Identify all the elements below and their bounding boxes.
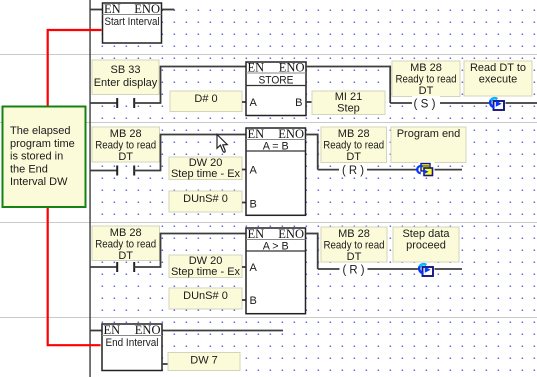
wire: riser up to EN level bbox=[160, 67, 162, 104]
coil R (rung 3) bbox=[339, 163, 367, 177]
function block FB2: STORE bbox=[246, 61, 306, 116]
svg-text:ENO: ENO bbox=[278, 127, 304, 141]
wire: B output to MI 21 bbox=[306, 101, 312, 103]
wire: contact to riser bbox=[134, 266, 161, 268]
icon: read/return arrow (rung 2) bbox=[489, 97, 506, 112]
svg-text:the End: the End bbox=[10, 163, 48, 175]
svg-text:End Interval: End Interval bbox=[106, 337, 159, 349]
svg-text:Step data: Step data bbox=[402, 228, 450, 240]
rung separator 3 bbox=[0, 222, 537, 223]
wire: contact to riser bbox=[134, 102, 161, 104]
svg-text:proceed: proceed bbox=[406, 239, 446, 251]
svg-text:( R ): ( R ) bbox=[342, 165, 364, 177]
svg-text:Ready to read: Ready to read bbox=[324, 239, 385, 251]
svg-text:Step time - Ex: Step time - Ex bbox=[171, 266, 241, 278]
svg-text:DW 7: DW 7 bbox=[190, 354, 218, 366]
svg-text:Ready to read: Ready to read bbox=[323, 139, 384, 151]
wire: DW20 to A input bbox=[242, 169, 246, 171]
rung separator 4 bbox=[0, 317, 537, 318]
svg-text:execute: execute bbox=[479, 73, 518, 85]
svg-text:MI 21: MI 21 bbox=[335, 91, 363, 103]
svg-text:D# 0: D# 0 bbox=[194, 93, 217, 105]
operand label Program end bbox=[391, 127, 466, 163]
wire: DW output to DW 7 bbox=[162, 363, 168, 365]
svg-text:EN: EN bbox=[104, 323, 121, 337]
wire: DW20 to A input bbox=[242, 266, 246, 268]
svg-text:DT: DT bbox=[118, 250, 133, 262]
wire: Start Interval ENO stub bbox=[162, 9, 175, 11]
svg-text:EN: EN bbox=[248, 61, 265, 75]
svg-text:ENO: ENO bbox=[279, 61, 305, 75]
operand DW 7 bbox=[168, 353, 240, 371]
wire: coil branch bbox=[318, 268, 462, 270]
svg-text:DT: DT bbox=[346, 151, 361, 163]
svg-text:A > B: A > B bbox=[263, 240, 289, 252]
wire: ENO to corner bbox=[306, 233, 319, 235]
wire: DUnS to B input bbox=[242, 299, 246, 301]
operand MI 21 Step bbox=[312, 91, 385, 115]
operand label MB 28 Ready to read DT (set) bbox=[392, 61, 460, 97]
svg-text:Read DT to: Read DT to bbox=[470, 62, 526, 74]
red annotation connector line bottom bbox=[48, 205, 101, 345]
svg-text:MB 28: MB 28 bbox=[338, 228, 370, 240]
operand label Step data proceed bbox=[393, 227, 459, 262]
svg-text:ENO: ENO bbox=[135, 323, 161, 337]
svg-text:A: A bbox=[250, 97, 258, 109]
contact SB33 bbox=[116, 98, 135, 108]
wire: down to coil level bbox=[317, 233, 319, 269]
operand label Read DT to execute bbox=[464, 61, 532, 96]
wire: D#0 to A input bbox=[242, 101, 246, 103]
svg-text:MB 28: MB 28 bbox=[110, 128, 142, 140]
svg-text:SB 33: SB 33 bbox=[111, 64, 141, 76]
rung separator 2 bbox=[0, 122, 537, 123]
operand DW 20 Step time - Ex (rung 4) bbox=[169, 255, 242, 278]
wire: rail to contact bbox=[90, 102, 117, 104]
svg-text:Ready to read: Ready to read bbox=[95, 139, 156, 151]
wire: rail to Start Interval EN bbox=[90, 9, 103, 11]
operand label MB 28 Ready to read DT (left) bbox=[92, 226, 160, 262]
svg-text:EN: EN bbox=[104, 2, 121, 16]
wire: riser up to EN level bbox=[160, 135, 162, 171]
rung separator 1 bbox=[0, 54, 537, 55]
coil R (rung 4) bbox=[340, 263, 368, 277]
mouse cursor bbox=[217, 135, 227, 153]
function block FB3: A = B compare bbox=[246, 127, 306, 215]
comment box: The elapsed program time is stored in the End Interval DW bbox=[3, 107, 86, 208]
svg-text:A: A bbox=[250, 262, 258, 274]
contact MB28 bbox=[116, 166, 135, 176]
wire: End Interval ENO to right bbox=[162, 330, 283, 332]
wire: coil branch bbox=[318, 169, 462, 171]
svg-text:program time: program time bbox=[10, 138, 75, 150]
svg-text:Step time - Ex: Step time - Ex bbox=[171, 168, 241, 180]
wire: rail to contact bbox=[90, 170, 117, 172]
svg-text:Enter display: Enter display bbox=[94, 77, 158, 89]
svg-text:DT: DT bbox=[118, 151, 133, 163]
icon: jump to program end (yellow) bbox=[417, 162, 434, 177]
wire: EN level to STORE block bbox=[160, 66, 246, 68]
svg-text:The elapsed: The elapsed bbox=[10, 125, 71, 137]
svg-text:Interval DW: Interval DW bbox=[10, 176, 68, 188]
svg-text:A: A bbox=[250, 164, 258, 176]
svg-text:DW 20: DW 20 bbox=[189, 157, 223, 169]
wire: down to coil level bbox=[317, 134, 319, 170]
svg-text:Start Interval: Start Interval bbox=[105, 16, 160, 28]
left power rail bbox=[89, 0, 91, 377]
svg-text:B: B bbox=[250, 198, 257, 210]
function block FB5: End Interval bbox=[102, 323, 162, 371]
coil S bbox=[412, 96, 440, 110]
wire: STORE ENO to right bbox=[306, 66, 391, 68]
svg-text:EN: EN bbox=[248, 227, 265, 241]
operand D# 0 bbox=[170, 91, 242, 112]
function block FB1: Start Interval bbox=[103, 2, 162, 43]
wire: down to coil level bbox=[389, 66, 391, 103]
svg-text:DT: DT bbox=[419, 85, 434, 97]
wire: EN level to A=B block bbox=[160, 134, 246, 136]
wire: DUnS to B input bbox=[242, 202, 246, 204]
svg-text:STORE: STORE bbox=[259, 75, 294, 87]
svg-text:B: B bbox=[250, 295, 257, 307]
svg-text:Ready to read: Ready to read bbox=[95, 238, 156, 250]
svg-text:( S ): ( S ) bbox=[414, 98, 436, 110]
contact MB28 (rung 4) bbox=[116, 262, 135, 272]
svg-text:( R ): ( R ) bbox=[343, 265, 365, 277]
svg-text:MB 28: MB 28 bbox=[410, 62, 442, 74]
svg-text:EN: EN bbox=[248, 127, 265, 141]
wire: EN level to A>B block bbox=[160, 233, 246, 235]
operand DW 20 Step time - Ex bbox=[169, 157, 242, 180]
svg-text:MB 28: MB 28 bbox=[110, 227, 142, 239]
wire: coil branch to right edge bbox=[390, 102, 537, 104]
svg-text:DW 20: DW 20 bbox=[189, 255, 223, 267]
svg-text:DUnS# 0: DUnS# 0 bbox=[183, 290, 228, 302]
wire: contact to riser bbox=[134, 170, 161, 172]
svg-text:B: B bbox=[295, 97, 302, 109]
svg-text:MB 28: MB 28 bbox=[338, 128, 370, 140]
svg-text:is stored in: is stored in bbox=[10, 151, 63, 163]
operand label MB 28 Ready to read DT (left) bbox=[92, 127, 160, 163]
operand label MB 28 Ready to read DT (reset, rung 4) bbox=[321, 227, 387, 263]
wire: rail to End Interval EN bbox=[90, 330, 102, 332]
svg-text:ENO: ENO bbox=[278, 227, 304, 241]
svg-text:ENO: ENO bbox=[134, 2, 160, 16]
operand DUnS# 0 (rung 4) bbox=[169, 288, 242, 309]
svg-text:Ready to read: Ready to read bbox=[396, 73, 457, 85]
red annotation connector line top bbox=[48, 30, 102, 108]
operand DUnS# 0 bbox=[169, 191, 242, 212]
icon: step proceed arrow (rung 4) bbox=[418, 263, 435, 278]
svg-text:Program end: Program end bbox=[397, 128, 461, 140]
svg-text:Step: Step bbox=[337, 102, 360, 114]
operand label MB 28 Ready to read DT (reset) bbox=[321, 127, 387, 163]
wire: riser up to EN level bbox=[160, 234, 162, 268]
svg-text:DUnS# 0: DUnS# 0 bbox=[183, 193, 228, 205]
wire: rail to contact bbox=[90, 266, 117, 268]
function block FB4: A > B compare bbox=[246, 227, 306, 314]
operand label SB 33 Enter display bbox=[92, 60, 159, 95]
svg-text:A = B: A = B bbox=[263, 140, 289, 152]
svg-text:DT: DT bbox=[347, 251, 362, 263]
wire: ENO to corner bbox=[306, 134, 319, 136]
